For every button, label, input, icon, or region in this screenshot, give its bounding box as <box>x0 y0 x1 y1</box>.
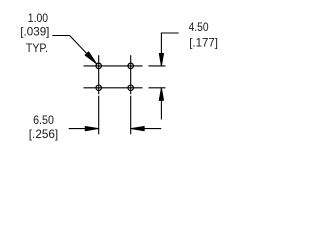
dimension 6.50 right arrow (pointing right) <box>85 126 99 130</box>
svg-text:4.50: 4.50 <box>189 20 209 34</box>
dimension 6.50 left line <box>69 128 99 130</box>
pad top-left <box>96 63 102 69</box>
centerline vertical col2 long dash <box>130 55 132 94</box>
svg-text:1.00: 1.00 <box>28 11 49 25</box>
centerline vertical col2 lower dash <box>130 96 132 135</box>
leader arrowhead at top-left pad <box>85 52 97 64</box>
pad top-right <box>128 63 134 69</box>
centerline horizontal row1 long dash <box>84 65 143 67</box>
dimension 4.50 down arrow <box>159 53 163 66</box>
dimension 4.50 vertical line lower segment <box>160 88 162 120</box>
dimension 6.50 left arrow (pointing left) <box>131 126 145 130</box>
dimension 4.50 up arrow <box>159 88 163 101</box>
svg-text:TYP.: TYP. <box>26 41 48 55</box>
dimension 4.50 vertical line upper segment with jog <box>161 33 178 66</box>
svg-text:[.256]: [.256] <box>29 127 58 141</box>
svg-text:6.50: 6.50 <box>33 113 54 127</box>
centerline horizontal row1 short dash <box>149 65 166 67</box>
centerline vertical col1 long dash <box>98 55 100 94</box>
svg-text:[.039]: [.039] <box>20 25 49 39</box>
dimension 6.50 right line <box>131 128 162 130</box>
centerline horizontal row2 short dash <box>149 87 166 89</box>
leader line for 1.00 TYP (horizontal then diagonal) <box>52 36 96 64</box>
svg-text:[.177]: [.177] <box>189 35 218 49</box>
pad bottom-left <box>96 85 102 91</box>
pad bottom-right <box>128 85 134 91</box>
centerline vertical col1 lower dash <box>98 96 100 135</box>
centerline horizontal row2 long dash <box>84 87 143 89</box>
